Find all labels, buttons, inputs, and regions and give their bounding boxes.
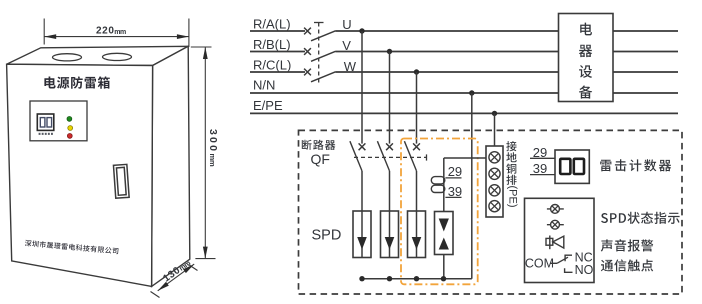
svg-text:R/A(L): R/A(L)	[253, 17, 291, 32]
breaker QF blade1	[350, 141, 362, 171]
svg-text:mm: mm	[114, 29, 126, 36]
wire QF1 to SPD1	[361, 171, 363, 211]
wire QF2 to SPD2	[389, 171, 391, 211]
svg-text:mm: mm	[208, 154, 217, 167]
wire L2 in	[250, 51, 305, 53]
contact NO lead	[565, 268, 573, 272]
cabinet vent hole right	[103, 53, 132, 60]
svg-text:QF: QF	[311, 151, 330, 167]
svg-text:29: 29	[448, 164, 462, 179]
status box	[525, 198, 595, 282]
label NO	[575, 263, 594, 277]
label N/N	[253, 78, 275, 93]
svg-text:E/PE: E/PE	[253, 98, 283, 113]
wire L1 in	[250, 30, 305, 32]
dim 300mm extension top	[191, 46, 212, 48]
counter box	[555, 150, 589, 183]
node W tap	[414, 69, 419, 74]
label NC	[575, 250, 593, 264]
label 声音报警	[601, 239, 654, 251]
wire W drop	[416, 72, 418, 144]
node U tap	[359, 28, 364, 33]
equipment text 器	[579, 45, 592, 57]
svg-text:220: 220	[96, 26, 115, 37]
label 断路器	[302, 140, 336, 150]
module dash-dot boundary	[401, 139, 478, 285]
label R/B(L)	[253, 37, 291, 52]
door handle	[113, 164, 129, 198]
LED yellow	[68, 126, 73, 131]
wire L3 in	[250, 71, 305, 73]
switch SA linkage	[314, 23, 324, 85]
dim label 130mm	[161, 260, 192, 285]
cabinet display panel	[30, 101, 87, 141]
LED red	[67, 134, 72, 139]
wire QF3 to SPD3	[416, 171, 418, 211]
switch SA pole B terminal	[304, 48, 311, 55]
node rail SPD1	[359, 276, 364, 281]
label QF	[311, 151, 330, 167]
wire N bus	[250, 92, 559, 94]
label COM	[525, 256, 554, 270]
SPD module 2 (MOV with down arrow)	[381, 211, 399, 258]
label 雷击计数器	[600, 159, 671, 171]
dim label 220mm	[96, 26, 126, 37]
label 29 at coil	[445, 164, 462, 179]
svg-text:39: 39	[533, 161, 547, 176]
wire V out	[336, 51, 559, 53]
label R/A(L)	[253, 17, 291, 32]
label (PE)	[507, 186, 519, 208]
counter coil	[431, 177, 445, 193]
label 通信触点	[601, 259, 653, 271]
svg-text:R/C(L): R/C(L)	[253, 58, 291, 73]
cabinet right side face	[152, 46, 190, 286]
switch SA blade A	[311, 31, 336, 41]
breaker QF pole3 terminal	[413, 143, 420, 150]
SPD cabinet dashed boundary	[299, 130, 683, 294]
busbar screw 2	[489, 168, 500, 179]
wire PE drop	[494, 113, 496, 146]
equipment text 备	[579, 86, 592, 99]
svg-text:R/B(L): R/B(L)	[253, 37, 291, 52]
label 29 at counter	[530, 145, 555, 160]
wire U drop	[361, 31, 363, 144]
label W	[344, 59, 357, 74]
svg-text:39: 39	[448, 184, 462, 199]
equipment text 电	[580, 23, 592, 36]
cabinet company text	[25, 240, 119, 255]
dim label 300mm	[207, 129, 219, 167]
busbar screw 1	[489, 152, 500, 163]
earth busbar 接地铜排	[486, 146, 503, 217]
dim 300mm arrow down	[203, 247, 208, 259]
svg-text:NO: NO	[575, 263, 594, 277]
breaker QF pole1 terminal	[359, 143, 366, 150]
contact NC lead	[565, 255, 572, 261]
dim 130mm extension upper	[189, 265, 198, 271]
relay contact	[551, 257, 569, 263]
dim 130mm line	[158, 264, 195, 291]
status lamp 1	[547, 205, 564, 214]
panel tiny label	[39, 133, 53, 135]
node rail SPD3	[414, 276, 419, 281]
dim 220mm arrow left	[44, 34, 56, 39]
wire V right stub	[613, 51, 678, 53]
node N tap	[469, 90, 474, 95]
svg-text:V: V	[342, 38, 351, 53]
equipment box 电器设备	[559, 14, 614, 102]
LED green	[67, 117, 72, 122]
label SPD	[312, 228, 342, 244]
wire W right stub	[613, 71, 678, 73]
svg-text:N/N: N/N	[253, 78, 275, 93]
status horn buzzer	[546, 236, 564, 250]
SPD module 4 N-PE gas discharge tube	[435, 158, 454, 279]
cabinet top face	[7, 46, 189, 65]
dim 300mm line	[204, 47, 206, 259]
label 接地铜排	[506, 141, 516, 185]
label R/C(L)	[253, 58, 291, 73]
panel counter digit 0 right	[47, 118, 52, 127]
wire N drop	[471, 93, 473, 279]
wire W out	[336, 71, 559, 73]
busbar screw 3	[489, 185, 500, 196]
svg-text:COM: COM	[525, 256, 554, 270]
node V tap	[387, 49, 392, 54]
dim 130mm arrow upper	[183, 264, 194, 273]
dim 300mm extension bottom	[195, 258, 215, 260]
switch SA blade C	[311, 72, 336, 82]
svg-text:U: U	[342, 17, 351, 32]
wire PE bus	[250, 112, 678, 114]
wire N right stub	[613, 92, 678, 94]
busbar screw 4	[489, 201, 500, 212]
breaker QF linkage	[354, 154, 427, 160]
wire GDT to busbar	[444, 157, 486, 159]
label SPD状态指示	[601, 212, 680, 224]
label U	[342, 17, 351, 32]
label E/PE	[253, 98, 283, 113]
wire U out	[336, 30, 559, 32]
cabinet front face	[7, 64, 153, 286]
dim 220mm arrow right	[177, 34, 189, 39]
breaker QF blade3	[404, 141, 416, 171]
dim 220mm extension left	[43, 19, 45, 45]
label 39 at coil	[445, 184, 462, 199]
svg-text:300: 300	[207, 129, 219, 153]
label V	[342, 38, 351, 53]
node PE tap	[492, 111, 497, 116]
svg-text:SPD: SPD	[312, 228, 342, 244]
wire SPD common rail	[362, 278, 472, 280]
counter digit 0 left	[560, 159, 570, 174]
SPD module 3 (MOV with down arrow)	[408, 211, 426, 258]
wire V drop	[389, 52, 391, 144]
node rail SPD2	[387, 276, 392, 281]
wire U right stub	[613, 30, 678, 32]
cabinet title 电源防雷箱	[44, 76, 109, 88]
panel counter window	[37, 114, 54, 130]
dim 220mm extension right	[188, 19, 190, 48]
breaker QF blade2	[377, 141, 389, 171]
panel counter digit 0 left	[40, 118, 45, 127]
status lamp 2	[547, 220, 564, 229]
dim 130mm arrow lower	[158, 282, 169, 291]
svg-text:W: W	[344, 59, 357, 74]
switch SA pole C terminal	[304, 69, 311, 76]
dim 220mm line	[44, 36, 189, 38]
svg-text:(PE): (PE)	[507, 186, 519, 208]
counter digit 0 right	[574, 159, 584, 174]
switch SA blade B	[311, 51, 336, 61]
switch SA pole A terminal	[304, 28, 311, 35]
dim 300mm arrow up	[203, 47, 208, 59]
dim 130mm extension lower	[151, 292, 160, 298]
equipment text 设	[579, 65, 592, 78]
breaker QF pole2 terminal	[386, 143, 393, 150]
node rail SPD4	[441, 276, 446, 281]
SPD module 1 (MOV with down arrow)	[353, 211, 371, 258]
cabinet vent hole left	[53, 54, 82, 61]
label 39 at counter	[530, 161, 555, 176]
